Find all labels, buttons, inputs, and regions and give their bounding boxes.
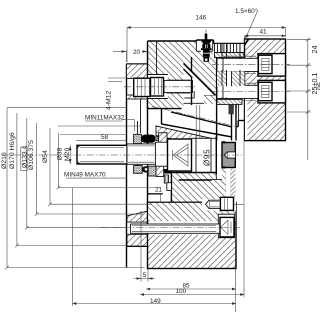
body lower section hatch xyxy=(171,173,216,203)
svg-text:Ø210: Ø210 xyxy=(1,152,8,169)
step line xyxy=(148,180,236,194)
gray nut set screw xyxy=(224,152,236,158)
svg-text:149: 149 xyxy=(150,298,161,305)
body top section xyxy=(148,41,217,109)
dim 149 xyxy=(73,188,236,306)
lower screw axis xyxy=(212,91,290,93)
leader 15x60 xyxy=(246,10,259,39)
flange section top xyxy=(127,64,148,79)
lower right screw shaft xyxy=(217,83,258,100)
main axis xyxy=(2,154,244,156)
svg-text:Ø95: Ø95 xyxy=(203,149,212,166)
right dim column xyxy=(287,37,311,160)
upper right screw shaft xyxy=(217,56,258,73)
svg-text:58: 58 xyxy=(101,134,109,141)
seal bottom (dark pill) xyxy=(142,166,150,172)
long bolt head xyxy=(220,217,234,237)
lower right screw head xyxy=(258,82,272,100)
flange section bolt gland lower xyxy=(127,234,148,246)
drawbar mid xyxy=(127,144,155,164)
svg-text:M20: M20 xyxy=(64,148,71,161)
svg-text:Ø38: Ø38 xyxy=(56,147,63,160)
svg-text:20: 20 xyxy=(133,49,141,56)
seal top ball xyxy=(155,137,159,141)
dim 5 xyxy=(134,211,156,282)
svg-text:100: 100 xyxy=(176,288,187,295)
seal bar (black) xyxy=(164,169,172,173)
svg-text:Ø54: Ø54 xyxy=(42,150,49,163)
mid screw axis stub xyxy=(234,203,244,205)
svg-text:21: 21 xyxy=(155,187,163,194)
sleeve step at block corner xyxy=(236,121,245,127)
M12 head pocket xyxy=(148,75,168,99)
dim 85 xyxy=(146,269,235,313)
seal gland bottom crosshatch xyxy=(134,166,143,174)
svg-text:MIN49 MAX70: MIN49 MAX70 xyxy=(64,172,106,179)
flange inner lines xyxy=(58,125,141,127)
flange inner bore vertical xyxy=(140,99,142,134)
svg-text:5: 5 xyxy=(143,272,147,279)
M12 screw head xyxy=(134,78,150,96)
svg-text:146: 146 xyxy=(196,15,207,22)
white notch in body lower section xyxy=(167,183,172,191)
flange plate outline xyxy=(127,64,150,268)
seal gland top right wall xyxy=(159,133,167,144)
wedge slanted dashdot xyxy=(152,106,235,126)
upper right screw head xyxy=(258,55,272,73)
flange section bolt gland upper xyxy=(127,211,148,222)
pocket bottom ledge xyxy=(204,95,217,97)
dim 100 xyxy=(140,142,244,298)
tiny screw below seal bar xyxy=(164,175,168,183)
svg-text:1.5×60°: 1.5×60° xyxy=(235,7,258,15)
wedge diagonal lower xyxy=(184,69,193,78)
svg-text:95: 95 xyxy=(316,82,320,90)
vent screw pocket xyxy=(196,40,212,51)
piston hatch between screws xyxy=(217,71,245,86)
right block xyxy=(245,39,286,141)
svg-text:4-M12: 4-M12 xyxy=(106,91,113,110)
bottom block xyxy=(148,169,237,269)
drawbar head xyxy=(168,136,217,174)
wedge band xyxy=(162,109,233,137)
M12 collar xyxy=(151,78,164,97)
seal top (black pill) xyxy=(141,135,155,143)
svg-text:MIN11MAX32: MIN11MAX32 xyxy=(85,115,125,122)
flange bore walls xyxy=(137,121,139,134)
piston seal dark xyxy=(229,105,234,115)
wedge seat hatched band xyxy=(156,126,217,149)
wedge channel white xyxy=(184,64,193,79)
disc spring stack xyxy=(215,44,245,53)
hatch strip under ledge xyxy=(204,96,217,105)
upper right screw counterbore xyxy=(258,54,286,77)
mid screw head xyxy=(220,197,233,210)
gray nut xyxy=(222,141,236,168)
dia95 pocket xyxy=(192,138,217,172)
lower right screw counterbore xyxy=(258,80,286,103)
M12 thread band xyxy=(164,57,193,105)
svg-text:Ø106.375: Ø106.375 xyxy=(28,140,35,170)
svg-text:41: 41 xyxy=(260,29,268,36)
drawbar shaft left xyxy=(77,145,127,164)
top boss outline xyxy=(196,40,244,44)
svg-text:24: 24 xyxy=(310,46,319,54)
M12 axis xyxy=(124,86,196,88)
long bolt shaft xyxy=(131,224,220,233)
bolt axis xyxy=(100,227,240,229)
spring seat plate xyxy=(215,53,245,58)
piston hatch strip xyxy=(217,99,242,104)
dim 41 xyxy=(245,36,286,43)
dim 20 xyxy=(113,51,127,53)
vent screw (black) xyxy=(201,29,212,62)
svg-text:Ø170 H6/g6: Ø170 H6/g6 xyxy=(9,132,16,169)
upper screw axis xyxy=(212,63,290,65)
seal gland bottom right wall xyxy=(148,166,156,176)
dim 146 xyxy=(127,28,286,63)
piston sleeve lines xyxy=(222,44,240,141)
flange section below M12 bore xyxy=(127,95,148,99)
seal gland top crosshatch xyxy=(134,134,142,143)
left dia dims xyxy=(7,108,160,268)
drawbar neck lines xyxy=(196,105,200,138)
body bottom-left corner section xyxy=(150,247,162,268)
piston wall xyxy=(216,58,218,141)
counterbore step lines xyxy=(184,91,217,103)
wedge diagonal xyxy=(184,64,217,97)
access hole below nut xyxy=(226,170,231,199)
mid screw shaft xyxy=(206,200,221,208)
